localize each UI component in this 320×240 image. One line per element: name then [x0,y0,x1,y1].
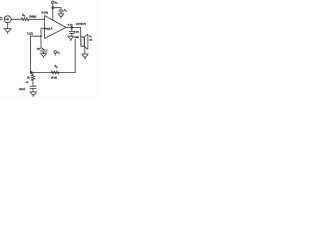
svg-text:10 kΩ: 10 kΩ [51,77,57,79]
wire speaker to ground [84,46,86,54]
svg-text:2: 2 [59,53,60,55]
svg-text:OUTPUT: OUTPUT [76,23,87,26]
svg-text:GND: GND [74,37,79,39]
wire feedback rail right side [74,39,76,72]
terminal V2 (floating above RB) [54,51,60,56]
svg-text:2 (10): 2 (10) [74,32,79,34]
supply terminal VS [52,0,59,5]
svg-text:7 (12): 7 (12) [27,32,34,35]
svg-text:6 (14): 6 (14) [42,11,48,14]
node (rail left corner) [30,71,33,74]
wire branch to feedback rail [30,36,41,72]
wire to bypass cap [53,8,61,10]
op-amp U1 [45,16,66,39]
ground (bypass cap) [41,52,47,58]
feedback rail [30,72,75,74]
svg-text:Amp A: Amp A [45,27,53,30]
node (output junction) [71,26,74,29]
resistor RB 10k on rail [51,66,59,79]
wire input to op-amp [11,18,21,20]
input jack J1 [4,16,11,23]
ground (output cap) [68,33,80,40]
inverting input stub [41,28,45,50]
svg-text:20 µF: 20 µF [19,89,26,91]
capacitor 20uF (bottom chain) [19,81,36,91]
wire VS down to op-amp [52,3,54,20]
resistor 500k (input) [21,18,29,21]
node (junction on VS wire) [52,6,55,9]
output wire [66,26,81,28]
svg-text:500kΩ: 500kΩ [29,15,36,18]
ground (below jack) [4,23,11,34]
capacitor (output to gnd) [69,27,79,33]
svg-text:4Ω: 4Ω [89,38,92,41]
capacitor CS [59,10,68,13]
resistor 1k (bottom chain) [26,74,35,84]
capacitor (bypass 5uF) [37,48,47,52]
node (branch junction) [40,35,42,37]
ground (speaker) [82,54,89,59]
ground (VS bypass) [58,12,64,18]
speaker LS1 [81,34,93,49]
ground (bottom chain) [30,88,37,96]
wire output to speaker [80,27,82,37]
